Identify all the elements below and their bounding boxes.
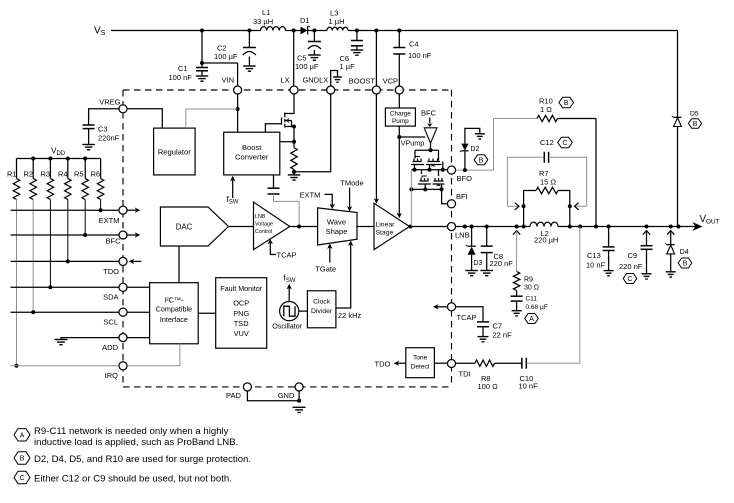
svg-text:1 µF: 1 µF	[340, 62, 356, 71]
wire D4 arrow	[667, 231, 674, 235]
svg-text:R1: R1	[7, 170, 17, 179]
pin TDO	[119, 257, 127, 265]
wire C1 branch	[201, 63, 203, 68]
svg-text:100 µF: 100 µF	[214, 52, 238, 61]
svg-text:OCP: OCP	[233, 299, 249, 308]
wire IRQ line	[11, 365, 119, 367]
pin IRQ	[119, 362, 127, 370]
note tag B for R10	[559, 97, 574, 107]
block Wave Shape	[318, 208, 357, 245]
wire SDA line	[11, 286, 119, 288]
svg-text:IRQ: IRQ	[105, 371, 119, 380]
pin LX	[290, 86, 298, 94]
wire VREG to regulator	[127, 109, 162, 128]
wire LNBVC out	[290, 226, 318, 228]
wire BFC arrow to buffer	[429, 118, 431, 124]
note tag B legend	[14, 452, 30, 464]
node R3 to line	[48, 285, 52, 289]
svg-text:C9: C9	[628, 251, 638, 260]
wire FET bottom rail	[411, 188, 441, 190]
arrow VOUT	[693, 222, 703, 231]
wire LX branch	[293, 31, 295, 86]
resistor R8	[475, 360, 495, 366]
svg-text:D2: D2	[471, 146, 480, 153]
wire D1 to L3	[308, 30, 327, 32]
svg-text:R2: R2	[24, 170, 34, 179]
node R7 right	[568, 204, 572, 208]
svg-text:GNDLX: GNDLX	[302, 76, 328, 85]
resistor R9	[513, 272, 519, 291]
svg-text:Control: Control	[255, 229, 272, 235]
wire DAC to I2C	[178, 246, 180, 283]
wire C12 loop right	[549, 157, 587, 206]
svg-text:ADD: ADD	[102, 343, 118, 352]
svg-text:inductive load is applied, suc: inductive load is applied, such as ProBa…	[34, 437, 238, 448]
wire BOOST to linear stage	[375, 94, 377, 199]
wire divider to wave shape	[336, 245, 351, 309]
wire R7 left to line	[523, 206, 525, 226]
wire C9 lower	[646, 249, 648, 273]
wire BFO to riser	[456, 169, 494, 171]
pin SCL	[119, 308, 127, 316]
node output line junction	[463, 225, 467, 229]
svg-text:LNB: LNB	[255, 214, 266, 220]
svg-text:R3: R3	[41, 170, 51, 179]
wire C13 branch	[608, 227, 610, 247]
wire BOOST branch	[375, 31, 377, 86]
wire EXTM arrow stub	[127, 209, 136, 211]
ground ADD	[55, 339, 68, 341]
svg-text:Charge: Charge	[390, 110, 411, 117]
svg-text:R9-C11 network is needed only: R9-C11 network is needed only when a hig…	[34, 426, 229, 437]
svg-text:LNB: LNB	[455, 231, 470, 240]
wire cap to node	[274, 194, 300, 227]
wire D2 branch	[464, 151, 466, 170]
svg-text:B: B	[683, 261, 688, 268]
pin BFO	[447, 166, 455, 174]
wire R5 column	[84, 200, 86, 236]
block Tone Detect	[406, 348, 435, 378]
svg-text:B: B	[693, 121, 698, 128]
capacitor C4	[393, 47, 405, 49]
node R2 to line	[31, 310, 35, 314]
node output line junction	[485, 225, 489, 229]
wire C3 to ground	[88, 129, 90, 145]
wire D2 to ground	[465, 128, 480, 143]
diode D3 zener	[467, 245, 475, 247]
svg-text:PAD: PAD	[226, 391, 241, 400]
svg-text:Voltage: Voltage	[255, 222, 273, 228]
node output line junction	[470, 225, 474, 229]
svg-text:D3: D3	[474, 260, 483, 267]
capacitor C6	[351, 40, 363, 42]
diode D5	[674, 116, 682, 118]
svg-text:VCP: VCP	[383, 77, 398, 86]
IC package dashed border right	[451, 90, 453, 387]
svg-text:33 µH: 33 µH	[253, 17, 273, 26]
node FET source junction	[292, 125, 296, 129]
wire L1 to D1	[286, 30, 301, 32]
node output line junction	[645, 225, 649, 229]
pin VCP	[395, 86, 403, 94]
wire R2 column	[32, 200, 34, 313]
pin ADD	[119, 334, 127, 342]
wire VPump rail	[399, 136, 425, 138]
svg-text:C4: C4	[409, 40, 419, 49]
wire D4 lower	[670, 254, 672, 272]
block Fault Monitor	[216, 278, 267, 349]
svg-text:220 nF: 220 nF	[619, 262, 643, 271]
wire R9 arrow	[513, 231, 520, 235]
svg-text:R4: R4	[58, 170, 68, 179]
svg-text:D2, D4, D5, and R10 are used f: D2, D4, D5, and R10 are used for surge p…	[34, 454, 251, 465]
capacitor C9	[641, 245, 653, 247]
wire VDD rail	[17, 158, 101, 160]
ground C1	[196, 75, 209, 77]
note tag A legend	[14, 429, 30, 441]
diode D2	[461, 144, 468, 151]
wire C1 node to VIN	[202, 62, 238, 64]
ground D3	[465, 270, 478, 272]
wire output line right	[558, 226, 696, 228]
svg-text:R9: R9	[524, 277, 533, 284]
wire sense to GNDLX	[294, 94, 331, 171]
wire TCAP arrow	[270, 243, 276, 255]
wire fsw arrow oscillator	[288, 288, 290, 302]
ground D2	[475, 133, 485, 135]
resistor R3	[49, 159, 51, 179]
wire C2 branch	[248, 31, 250, 48]
svg-text:TDO: TDO	[375, 360, 391, 369]
node VDD junction R3	[48, 157, 52, 161]
ground C13	[604, 270, 614, 272]
wire TDO arrow stub	[133, 260, 141, 262]
svg-text:Tone: Tone	[413, 355, 428, 362]
transistor Q3 pass	[420, 180, 429, 182]
wire SDA to I2C	[127, 286, 149, 288]
pin VIN	[234, 86, 242, 94]
wire EXTM line	[11, 209, 119, 211]
node C1 junction	[200, 61, 204, 65]
svg-text:10 nF: 10 nF	[586, 261, 606, 270]
node BOOST junction	[374, 29, 378, 33]
inductor L3	[327, 27, 348, 30]
wire FET top right drop	[438, 150, 440, 160]
svg-text:Boost: Boost	[242, 143, 262, 152]
wire R3 column	[49, 200, 51, 288]
pin BFI	[447, 200, 455, 208]
node bottom rail right	[440, 187, 444, 191]
wire FET top left drop	[414, 150, 416, 158]
wire Vs rail	[111, 30, 261, 32]
node LNBVC out junction	[297, 225, 301, 229]
node VDD junction R5	[83, 157, 87, 161]
svg-text:Converter: Converter	[235, 153, 269, 162]
svg-text:B: B	[564, 100, 569, 107]
oscillator symbol	[280, 302, 299, 321]
wire R6 column	[100, 200, 102, 211]
node R1 to line	[15, 364, 19, 368]
wire EXTM to wave shape	[325, 194, 333, 205]
pin LNB	[447, 223, 455, 231]
svg-text:PNG: PNG	[233, 309, 249, 318]
note tag B for D2	[474, 155, 488, 165]
wire TDI to R8	[456, 362, 475, 364]
wire FET to sense node	[293, 127, 295, 142]
wire R9 to C11	[516, 291, 518, 297]
svg-text:A: A	[20, 432, 25, 439]
ground D4	[666, 271, 676, 273]
ground C7	[478, 336, 489, 338]
pin BFC	[119, 231, 127, 239]
resistor R7	[524, 191, 536, 207]
wire C12 right arrow	[574, 205, 587, 207]
wire R8 to C10	[495, 362, 522, 364]
ground C2	[243, 65, 256, 67]
resistor R5	[84, 159, 86, 179]
wire SCL to I2C	[127, 311, 149, 313]
wire DAC to LNB VC	[229, 226, 254, 228]
svg-text:10 nF: 10 nF	[519, 382, 539, 391]
capacitor C5	[308, 41, 321, 43]
svg-text:BOOST: BOOST	[349, 77, 376, 86]
node R4 to line	[66, 259, 70, 263]
ground GNDLX external	[331, 71, 338, 86]
wire R10 riser	[595, 119, 597, 227]
block Regulator	[154, 128, 196, 175]
pin EXTM	[119, 206, 127, 214]
note tag C legend	[14, 471, 30, 483]
svg-text:SCL: SCL	[103, 318, 118, 327]
wire linear out	[410, 226, 448, 228]
wire C11 to ground	[516, 301, 518, 311]
wire D3 branch	[471, 227, 473, 247]
svg-text:Oscillator: Oscillator	[272, 322, 303, 331]
node output line junction	[594, 225, 598, 229]
wire BFC line	[11, 234, 119, 236]
svg-text:220 nF: 220 nF	[490, 259, 514, 268]
svg-text:TMode: TMode	[340, 179, 363, 188]
wire D5 to Vout line	[677, 127, 679, 227]
resistor R4	[67, 159, 69, 179]
note tag C for C9	[623, 274, 637, 284]
wire boost bottom cap	[273, 175, 275, 188]
block Boost Converter	[224, 132, 280, 175]
svg-text:C12: C12	[540, 138, 554, 147]
svg-text:C3: C3	[98, 125, 108, 134]
wire IRQ to I2C	[127, 344, 180, 366]
node sense junction	[292, 140, 296, 144]
note tag A for C11	[525, 314, 539, 324]
IC package dashed border bottom	[123, 386, 452, 388]
capacitor boost bypass	[268, 187, 280, 189]
wire Vs corner down to D5	[677, 31, 679, 118]
svg-text:Interface: Interface	[160, 315, 188, 324]
wire LX down to FET	[293, 94, 295, 111]
node sense bottom junction	[292, 170, 296, 174]
wire VREG to C3	[89, 109, 119, 125]
wire Vs to C1 node	[201, 31, 203, 64]
svg-text:B: B	[479, 157, 484, 164]
inductor L2	[530, 222, 558, 226]
svg-text:22 kHz: 22 kHz	[338, 311, 362, 320]
wire C9 arrow	[643, 231, 650, 235]
svg-text:0.68 µF: 0.68 µF	[525, 304, 548, 311]
wire R7 right to line	[569, 206, 571, 226]
node output line junction	[568, 225, 572, 229]
svg-text:TDI: TDI	[459, 370, 471, 379]
svg-text:TGate: TGate	[315, 264, 336, 273]
capacitor C1	[196, 67, 208, 69]
svg-text:220 µH: 220 µH	[534, 236, 558, 245]
wire BFI to FET	[442, 189, 448, 203]
node VDD junction R2	[31, 157, 35, 161]
node LX junction	[292, 29, 296, 33]
svg-text:Fault Monitor: Fault Monitor	[220, 284, 263, 293]
wire C6 branch	[356, 31, 358, 41]
node mid rail right	[441, 168, 445, 172]
svg-text:VIN: VIN	[221, 75, 234, 84]
block DAC	[160, 207, 228, 246]
wire C12 loop left	[507, 157, 544, 206]
resistor Rsense	[293, 142, 295, 148]
svg-text:Either C12 or C9 should be use: Either C12 or C9 should be used, but not…	[34, 473, 232, 484]
svg-text:I²C™-: I²C™-	[164, 296, 184, 305]
ground sense	[293, 172, 295, 175]
node mid rail left	[413, 168, 417, 172]
wire tone detect to TDI	[434, 362, 447, 364]
svg-text:BFI: BFI	[456, 192, 468, 201]
wire FET left column	[410, 170, 412, 190]
node Vs-C2C1 junction	[200, 29, 204, 33]
wire ADD line	[61, 338, 119, 340]
svg-text:100 nF: 100 nF	[408, 51, 432, 60]
svg-text:C11: C11	[525, 296, 537, 303]
wire buffer to FET rail	[430, 143, 432, 150]
block I2C interface	[150, 283, 199, 344]
wire TDO arrow	[398, 362, 406, 364]
svg-text:VPump: VPump	[401, 138, 425, 147]
wire L3 to corner	[348, 30, 678, 32]
svg-text:VUV: VUV	[234, 329, 249, 338]
note tag B for D5	[688, 119, 701, 129]
capacitor C7	[477, 321, 489, 323]
IC package dashed border top	[123, 89, 452, 91]
pin VREG	[119, 105, 127, 113]
wire TCAP to C7	[456, 307, 483, 322]
op-amp Linear Stage	[374, 203, 410, 249]
svg-text:B: B	[20, 456, 25, 463]
IC package dashed border left	[122, 90, 124, 387]
svg-text:C: C	[563, 140, 568, 147]
wire PAD to GND ground	[247, 391, 299, 401]
transistor Q1 pass	[413, 161, 422, 163]
capacitor C11	[511, 295, 523, 297]
wire C12 left arrow	[507, 205, 519, 207]
node bottom rail mid	[423, 187, 427, 191]
diode D1	[301, 27, 308, 35]
svg-text:R5: R5	[74, 170, 84, 179]
resistor R6	[100, 159, 102, 179]
svg-text:C13: C13	[587, 251, 601, 260]
wire VIN to regulator	[186, 109, 238, 128]
wire TDO line	[11, 260, 119, 262]
node bottom rail left	[409, 187, 413, 191]
transistor Q2 pass	[428, 161, 441, 163]
pin GND	[295, 383, 303, 391]
pin SDA	[119, 283, 127, 291]
svg-text:D4: D4	[680, 249, 689, 256]
wire ADD to I2C	[127, 337, 149, 339]
node R6 to line	[99, 208, 103, 212]
svg-text:Pump: Pump	[392, 118, 409, 125]
node R7 left	[522, 204, 526, 208]
svg-text:L1: L1	[262, 8, 270, 17]
transistor M1 nmos	[281, 118, 283, 125]
block Clock Divider	[307, 291, 336, 328]
svg-text:BFC: BFC	[421, 109, 437, 118]
wire charge pump to linear	[398, 137, 400, 214]
capacitor C3	[83, 124, 95, 126]
svg-text:BFO: BFO	[457, 174, 473, 183]
ground C6	[351, 49, 364, 51]
node C2 junction	[247, 29, 251, 33]
svg-text:100 µF: 100 µF	[295, 62, 319, 71]
svg-text:C7: C7	[493, 321, 503, 330]
node VDD junction R4	[66, 157, 70, 161]
wire bottom rail drops	[424, 184, 426, 189]
svg-text:1 µH: 1 µH	[329, 17, 345, 26]
svg-text:Regulator: Regulator	[158, 147, 191, 156]
ground C8	[480, 270, 493, 272]
wire C8 branch	[486, 227, 488, 247]
resistor R10	[537, 115, 558, 121]
note tag C for C12	[558, 137, 573, 147]
svg-text:TCAP: TCAP	[277, 251, 297, 260]
resistor R2	[32, 159, 34, 179]
pin BOOST	[372, 86, 380, 94]
capacitor C13	[603, 246, 615, 248]
diode D4	[667, 244, 675, 246]
node VCP junction	[397, 29, 401, 33]
wire FET top rail	[415, 149, 439, 151]
wire boost gate drive	[265, 124, 281, 133]
svg-text:SDA: SDA	[103, 293, 118, 302]
pin PAD	[243, 383, 251, 391]
svg-text:R6: R6	[91, 170, 101, 179]
svg-text:C: C	[20, 475, 25, 482]
ground C9	[642, 273, 652, 275]
ground C5	[308, 54, 321, 56]
svg-text:A: A	[529, 316, 534, 323]
svg-text:C: C	[628, 276, 633, 283]
svg-text:Stage: Stage	[376, 230, 394, 237]
note tag B for D4	[678, 258, 692, 268]
wire charge pump out	[398, 126, 400, 137]
wire VIN to boost	[237, 109, 239, 132]
svg-text:EXTM: EXTM	[300, 190, 321, 199]
resistor R1	[16, 159, 18, 179]
svg-text:TCAP: TCAP	[457, 313, 477, 322]
ground GND pin	[293, 406, 306, 408]
svg-text:100 nF: 100 nF	[169, 73, 193, 82]
wire C10 to output line	[526, 227, 580, 364]
buffer BFC driver	[424, 128, 437, 143]
wire BFO riser	[494, 119, 538, 171]
node C6 junction	[355, 29, 359, 33]
block Charge Pump	[385, 108, 415, 126]
wire R1 column	[16, 200, 18, 366]
